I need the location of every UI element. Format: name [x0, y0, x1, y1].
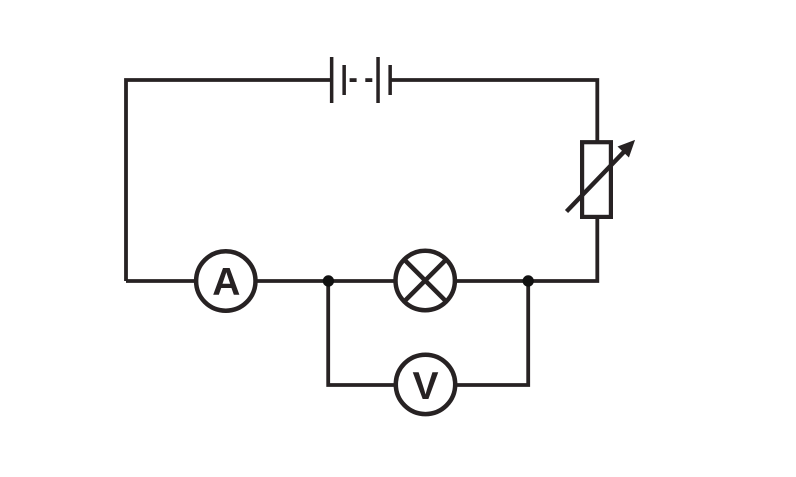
lamp L1	[396, 251, 455, 310]
svg-text:V: V	[412, 365, 438, 408]
voltmeter V	[396, 355, 455, 414]
wire right lower segment	[530, 219, 597, 281]
battery cell 1 short plate	[342, 65, 346, 95]
wire voltmeter right branch	[456, 281, 528, 385]
wire bottom: ammeter to left corner	[126, 279, 195, 283]
battery cell 2 short plate	[388, 65, 392, 95]
wire top-right segment	[392, 80, 598, 141]
battery B1	[330, 57, 392, 103]
ammeter A	[196, 251, 255, 310]
wire bottom: dot B to lamp	[456, 279, 528, 283]
wire bottom: dot A to ammeter	[257, 279, 331, 283]
wire bottom: lamp to dot A	[327, 279, 395, 283]
wire top-left segment	[126, 80, 330, 281]
svg-text:A: A	[212, 261, 240, 304]
wire voltmeter left branch	[328, 281, 394, 385]
variable resistor R1	[567, 141, 634, 217]
junction node B (right of lamp)	[523, 275, 534, 286]
battery dash 1	[350, 78, 357, 82]
battery cell 1 long plate	[330, 57, 334, 103]
battery cell 2 long plate	[376, 57, 380, 103]
battery dash 2	[365, 78, 372, 82]
junction node A (left of lamp)	[323, 275, 334, 286]
